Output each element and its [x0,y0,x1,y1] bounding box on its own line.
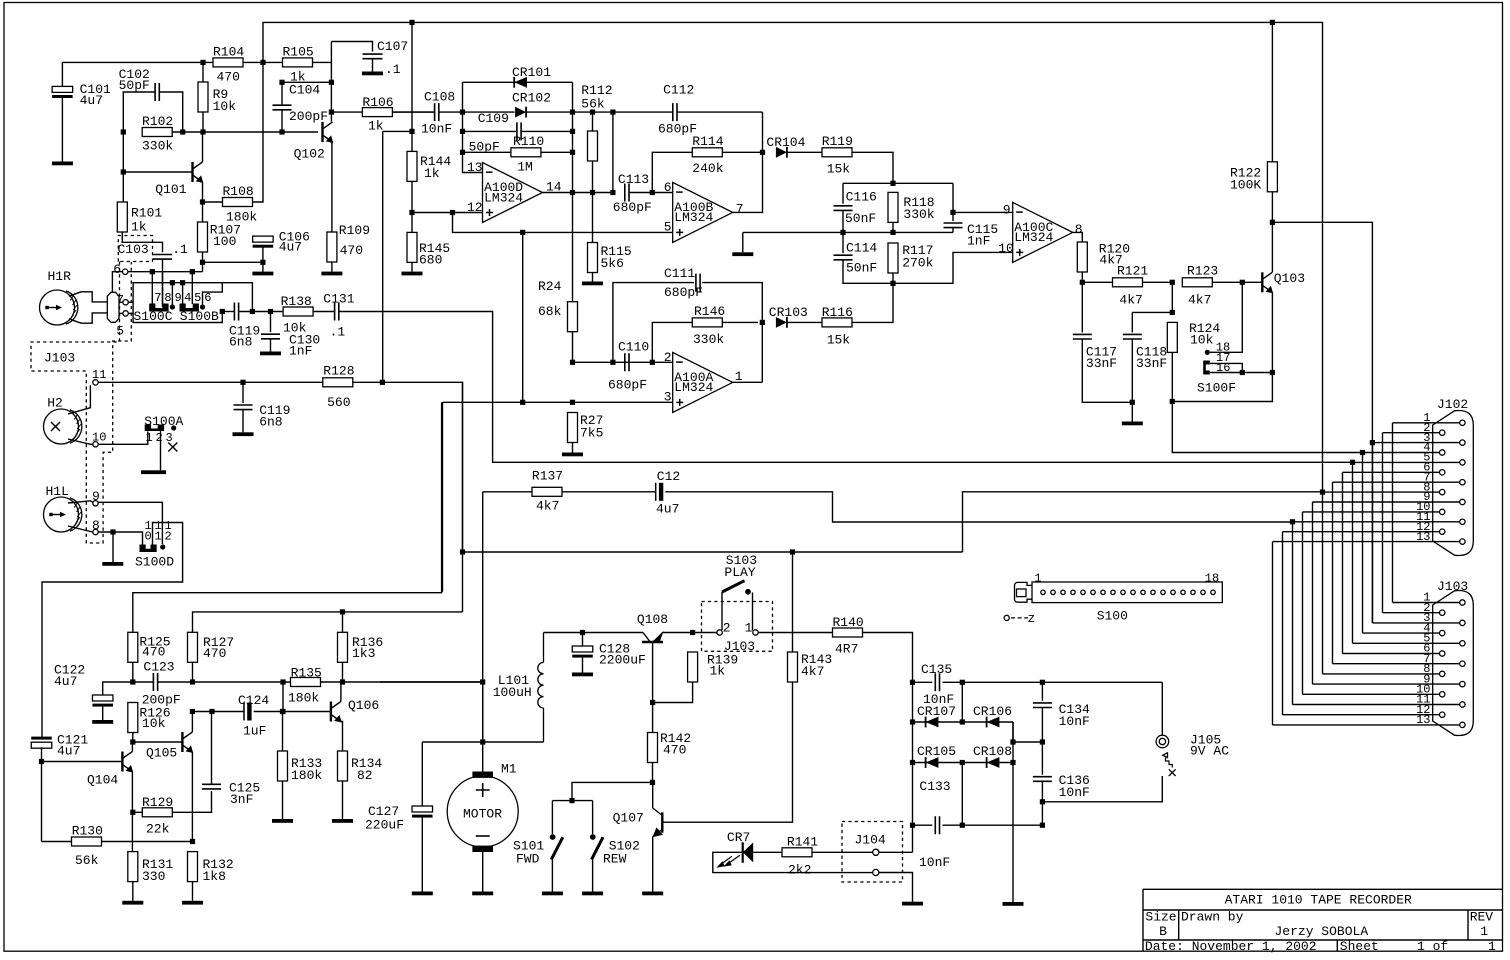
wire C114 bottom leg [843,260,893,284]
wire CR103 to R116 [787,321,822,323]
wire S100B to C119 [222,311,234,313]
svg-text:10k: 10k [283,321,307,336]
capacitor C127 [412,806,433,818]
wire pin1 to R140 [758,632,832,634]
pin 10 of J103 [93,442,98,447]
junction C119b [240,380,245,385]
svg-text:Q101: Q101 [155,182,186,197]
J103 pin 1 circle [1460,600,1465,605]
connector lug H1R [107,292,119,322]
J102 pin 2 circle [1440,430,1445,435]
wire R102 to node [172,131,203,133]
wire pin7 riser [151,272,153,304]
capacitor C134 [1033,703,1052,708]
switch contact bracket S100B pins4-5 [180,304,199,312]
wire C101 to ground [61,98,63,162]
junction feedback/CR103 [760,320,765,325]
tape head H1R [40,290,78,325]
diode CR104 [776,147,787,158]
wire C117 bottom leg [1082,339,1132,402]
resistor R130 [72,837,102,846]
wire C136 bottom leg [1041,781,1043,825]
svg-text:10: 10 [998,241,1014,256]
junction R139/Q108 base [650,700,655,705]
capacitor C130 [261,334,280,339]
svg-text:1k: 1k [131,220,147,235]
wire R9 bottom lead [202,112,204,132]
svg-text:1 of: 1 of [1417,939,1448,954]
svg-text:MOTOR: MOTOR [463,807,502,822]
junction ground tap [110,529,115,534]
wire y682 line to corner [343,681,483,683]
wire to ground S100D [112,532,114,562]
wire C130 top leg [270,312,272,333]
wire S100F pin17 [1210,363,1242,372]
ground J104 [902,902,923,906]
diode CR106 [987,717,1000,728]
junction R112 top [590,110,595,115]
resistor R119 [822,148,852,157]
junction C104 top [279,80,284,85]
wire C133 right lead [943,824,1043,826]
resistor R126 [128,703,138,733]
wire bias rail down [522,232,524,402]
wire CR7 cathode to R141 [753,851,782,853]
svg-text:C113: C113 [618,172,649,187]
wire CR102 line left [463,111,515,113]
resistor R133 [278,751,288,781]
wire J102 pin 7 line [1333,481,1460,483]
svg-text:Q106: Q106 [348,698,379,713]
J103 pin 13 circle [1460,722,1465,727]
junction bus drop [260,60,265,65]
junction S101/S102 tee [569,798,574,803]
op-amp U1D A100D [483,163,543,223]
resistor R131 [128,852,138,882]
switch S101 contact dot [550,834,556,840]
wire R143 to Q107 base [662,682,792,822]
capacitor C106 [253,236,274,248]
ground C117/C118 [1122,422,1143,426]
resistor R105 [283,58,313,67]
ground R132 [182,901,203,905]
LED CR7 [716,842,753,867]
junction right rail y131 [570,129,575,134]
wire R101 top lead [122,172,124,202]
wire R142 to collector node [652,763,654,783]
junction S100C pin7 riser [150,269,155,274]
wire R118 bottom leg [892,222,894,232]
svg-text:M1: M1 [501,762,517,777]
wire C122 to ground [102,707,104,720]
ground C106 [252,272,273,276]
junction bias rail drop [520,230,525,235]
wire R115 to ground [592,273,594,282]
wire Q101 collector [202,132,204,162]
capacitor C108 [435,103,439,121]
wire pin11 to R128 line [98,381,323,383]
svg-text:LM324: LM324 [674,210,713,225]
wire R131 to ground [132,882,134,901]
wire H1R mount top [69,292,107,302]
wire C118 top leg [1131,312,1133,332]
wire R139 bottom to base [653,682,693,703]
junction collector rail [329,80,334,85]
junction Q104 base node [39,759,44,764]
ground C119 (H2) [233,432,254,436]
resistor R115 [588,243,598,273]
wire R144 rail [411,22,413,151]
junction R27 top [570,400,575,405]
wire y682 line to R135 [193,681,291,683]
wire R104 to R105 [243,61,283,63]
wire J103 pin 12 line [1283,714,1440,716]
svg-text:Q102: Q102 [294,147,325,162]
wire C134 bottom leg [1041,708,1043,743]
contact dot S100F pin 18 [1205,350,1210,355]
svg-text:C110: C110 [618,340,649,355]
ground CR ladder [1003,902,1024,906]
wire R133 top lead [282,712,284,752]
junction rail C133 [910,823,915,828]
wire C111 right leg [702,283,762,323]
wire C135 left lead [913,681,933,683]
wire emitter net to J102 pin4 [1172,402,1362,453]
junction top bus / R122 rail [1270,20,1275,25]
motor M1 [447,772,518,853]
wire C136 top leg [1041,742,1043,775]
tape head H1L [44,497,82,532]
svg-text:.1: .1 [172,242,188,257]
wire R125 bottom lead [132,663,134,682]
wire pin 5 stub [119,312,123,314]
capacitor C131 [335,303,339,321]
svg-text:S100D: S100D [135,555,174,570]
junction CR107/CR106 [960,719,965,724]
wire J102 pin 5 line [1353,461,1460,463]
wire pin5 riser [191,272,193,304]
junction R118 top [890,181,895,186]
wire R146 left leg [652,322,692,362]
dashed J104 box [842,822,903,883]
wire Q102 collector rail [330,42,332,122]
svg-text:6: 6 [664,180,672,195]
svg-text:470: 470 [663,743,686,758]
wire C114 top leg [842,232,844,253]
J103 pin 2 circle [1440,610,1445,615]
wire CR7 anode to J104 return [713,852,873,872]
connector J105 jack [1156,735,1176,776]
junction R121/R123 [1170,280,1175,285]
svg-text:4u7: 4u7 [656,502,679,517]
switch contact bracket S100D pins10-11 [140,545,157,553]
svg-text:H1L: H1L [46,484,69,499]
resistor R117 [888,243,898,273]
svg-text:15k: 15k [827,162,851,177]
svg-text:1nF: 1nF [967,234,990,249]
wire pin4 riser [182,283,184,304]
wire R124 bottom lead [1171,352,1173,401]
capacitor C101 plates [52,86,73,98]
dashed outline J103 main boundary [31,262,131,544]
svg-text:180k: 180k [291,768,322,783]
wire R101 bottom to C103 [122,232,162,252]
svg-text:6n8: 6n8 [259,415,282,430]
wire J103 pin 1 line [1393,602,1460,604]
junction C128 top [580,630,585,635]
ground S100D [102,562,123,566]
wire J103 pin 9 line [1313,683,1460,685]
junction left rail y131 [460,129,465,134]
wire R133 to ground [282,781,284,819]
wire R106 to C108 [392,111,434,113]
wire R140 to power rail [863,633,913,853]
wire Q105 base line [133,741,183,743]
wire Q106 emitter to R134 [341,722,343,752]
junction pin4 staircase [1360,450,1365,455]
capacitor C109 [517,122,521,140]
op-amp U1A A100A [673,352,733,412]
wire R129 to C125 [172,791,211,812]
junction R117 bottom [890,281,895,286]
junction pin16 tap [1270,370,1275,375]
resistor R146 [692,318,722,327]
wire C123 left lead [133,681,154,683]
wire J103 pin 3 line [1373,622,1460,624]
J102 pin 13 circle [1460,539,1465,544]
wire R144 to R145 [411,181,413,232]
J103 pin 5 circle [1460,641,1465,646]
wire S100A pin2 to ground [160,431,162,470]
wire S101 to ground [551,860,553,892]
svg-text:5k6: 5k6 [601,256,624,271]
svg-text:CR104: CR104 [766,135,805,150]
wire C131 to J102 pin5 bus [339,312,1353,463]
svg-text:56k: 56k [581,97,605,112]
svg-text:C133: C133 [919,779,950,794]
junction R124 top [1170,310,1175,315]
wire CR104 to R119 [787,151,822,153]
ground R27 [562,453,583,457]
wire R130 left rail [41,762,43,842]
junction pin2 node [570,360,575,365]
wire J102-J103 pin 3 link [1372,443,1374,623]
wire to pin10 [893,252,1013,283]
wire J102-J103 pin 2 link [1382,433,1384,613]
junction R106 tap [329,110,334,115]
wire J103 pin 7 line [1333,663,1460,665]
capacitor C121 [31,737,52,749]
wire CR106 to C134 mid [1013,722,1042,742]
wire R114 left leg [652,152,692,192]
resistor R134 [338,751,348,781]
svg-text:C107: C107 [377,39,408,54]
J102 pin 4 circle [1440,450,1445,455]
wire S100F pin18 [1210,282,1242,352]
wire J102 pin 2 line [1383,432,1440,434]
svg-text:10nF: 10nF [919,855,950,870]
resistor R107 [198,222,208,252]
wire C115 bottom leg [952,228,954,233]
svg-text:LM324: LM324 [484,190,523,205]
junction S100B output [220,309,225,314]
wire R116 up to detector [852,283,893,322]
wire R138 to C131 [313,311,335,313]
ground Q107 [642,892,663,896]
wire C117 top leg [1081,282,1083,332]
svg-text:13: 13 [1416,713,1430,727]
resistor R132 [188,852,198,882]
wire R9 top lead [202,62,204,82]
junction R146 drop [650,360,655,365]
svg-text:R146: R146 [694,304,725,319]
wire switch feed [572,782,653,800]
svg-text:R129: R129 [142,795,173,810]
wire S100F pin16 [1210,372,1272,374]
junction C102 right [180,129,185,134]
svg-text:4k7: 4k7 [1119,293,1142,308]
junction R124/emitter [1170,399,1175,404]
svg-text:680: 680 [419,253,442,268]
ground R109 [321,272,342,276]
junction R127/C123 [190,679,195,684]
wire R121 left lead [1082,281,1112,283]
J104 top circle [873,849,879,855]
wire H1R mount bottom [69,313,107,323]
junction left rail y152 [460,150,465,155]
resistor R102 [142,128,172,137]
svg-text:5: 5 [664,220,672,235]
pin 8 of J103 [93,529,98,534]
wire supply bus B [193,612,463,632]
svg-text:1: 1 [1034,572,1041,586]
svg-text:C116: C116 [846,190,877,205]
svg-text:9V AC: 9V AC [1190,744,1229,759]
svg-text:CR101: CR101 [512,65,551,80]
capacitor C114 [834,255,853,260]
J103 pin 4 circle [1440,630,1445,635]
wire pin8 to S100D pin10 [98,532,142,545]
junction bias drop [450,210,455,215]
svg-text:680pF: 680pF [664,285,703,300]
resistor R114 [692,148,722,157]
junction right rail y112 [570,110,575,115]
wire A100B output loop [733,112,763,212]
svg-text:2: 2 [156,431,163,445]
svg-text:R104: R104 [213,45,244,60]
svg-text:R130: R130 [72,824,103,839]
svg-text:6: 6 [204,291,211,305]
wire R24 top lead [572,193,574,302]
wire main line to C112 [573,111,673,113]
svg-text:10nF: 10nF [1059,714,1090,729]
J102 pin 1 circle [1460,420,1465,425]
wire Q105 emitter rail [191,752,193,842]
wire A100D output [543,192,613,194]
capacitor C119 (H2) [234,405,253,410]
resistor R104 [213,58,243,67]
junction rail CR105 [910,760,915,765]
J103 pin 10 circle [1440,692,1445,697]
diode CR101 [514,77,527,88]
svg-text:11: 11 [92,368,106,382]
svg-text:220uF: 220uF [365,818,404,833]
wire Q104 collector [131,742,133,752]
svg-text:R109: R109 [339,223,370,238]
wire pin12 line [412,212,483,214]
svg-text:1k3: 1k3 [352,646,375,661]
wire pin5 to box [128,312,133,314]
ground C128 [572,673,593,677]
wire C102 right leg [159,92,183,132]
resistor R27 [568,413,578,443]
wire C119 to node [239,311,284,313]
wire C122 top corner [103,682,133,695]
wire J102 pin 10 line [1303,511,1440,513]
J103 pin 12 circle [1440,712,1445,717]
svg-text:Size: Size [1145,910,1176,925]
wire detector top line [843,182,953,184]
wire C121 bottom lead [41,747,43,761]
svg-text:1M: 1M [517,160,533,175]
resistor R120 [1077,242,1087,272]
svg-text:4k7: 4k7 [1188,293,1211,308]
svg-text:Sheet: Sheet [1340,939,1379,954]
junction J102 pin3 [1370,440,1375,445]
J103 pin 2 circle (S103) [717,630,722,635]
transistor Q104 [122,752,133,773]
svg-text:50nF: 50nF [846,261,877,276]
svg-text:18: 18 [1205,572,1219,586]
wire C127 to ground [421,818,423,892]
diode CR107 [926,717,939,728]
wire C125 top leg [211,712,213,785]
J102 pin 12 circle [1440,529,1445,534]
resistor R116 [822,318,852,327]
wire J102 pin 11 line [1293,521,1460,523]
svg-text:S100F: S100F [1197,381,1236,396]
svg-text:330k: 330k [142,139,173,154]
junction C115 top [950,210,955,215]
svg-text:10k: 10k [1190,333,1214,348]
svg-text:LM324: LM324 [1014,230,1053,245]
wire J102 pin 12 line [1283,531,1440,533]
ground M1 [472,892,493,896]
svg-text:R116: R116 [822,305,853,320]
wire R135 base drop [282,682,284,712]
junction C104 bottom [279,129,284,134]
svg-text:8: 8 [1075,222,1083,237]
transistor Q103 [1262,272,1273,293]
wire pin3 line [443,401,673,403]
svg-text:5: 5 [194,291,201,305]
svg-text:R123: R123 [1187,264,1218,279]
resistor R141 [782,848,812,857]
wire J104 top to power rail [879,851,913,853]
wire C104 bottom leg [281,110,283,132]
wire R117 bottom lead [892,273,894,283]
wire supply bus A [133,402,442,632]
junction R107 bottom [200,260,205,265]
resistor R140 [833,628,863,637]
wire R129 left lead [133,811,143,813]
junction Q105 collector [190,709,195,714]
ground C127 [412,892,433,896]
capacitor C103 [153,255,172,260]
resistor R109 [327,232,337,262]
wire R123 to Q103 [1212,281,1262,283]
wire R128 to corner [353,382,463,612]
